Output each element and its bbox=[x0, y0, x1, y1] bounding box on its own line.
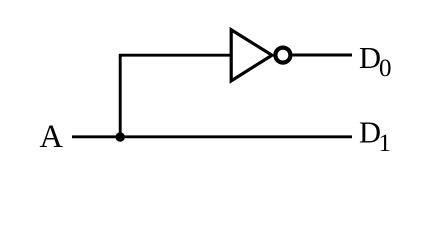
wire bubble to D0 bbox=[291, 54, 352, 57]
svg-text:0: 0 bbox=[379, 55, 392, 82]
svg-text:1: 1 bbox=[379, 130, 392, 157]
wire top horizontal to inverter input bbox=[119, 54, 232, 57]
wire junction up (vertical) bbox=[119, 55, 122, 137]
inverter U1 triangle bbox=[231, 30, 272, 81]
svg-text:D: D bbox=[359, 41, 381, 75]
wire A to D1 (bottom horizontal) bbox=[72, 135, 352, 138]
node junction dot bbox=[116, 132, 125, 141]
svg-text:A: A bbox=[40, 119, 64, 155]
inverter U1 output bubble bbox=[275, 48, 290, 63]
